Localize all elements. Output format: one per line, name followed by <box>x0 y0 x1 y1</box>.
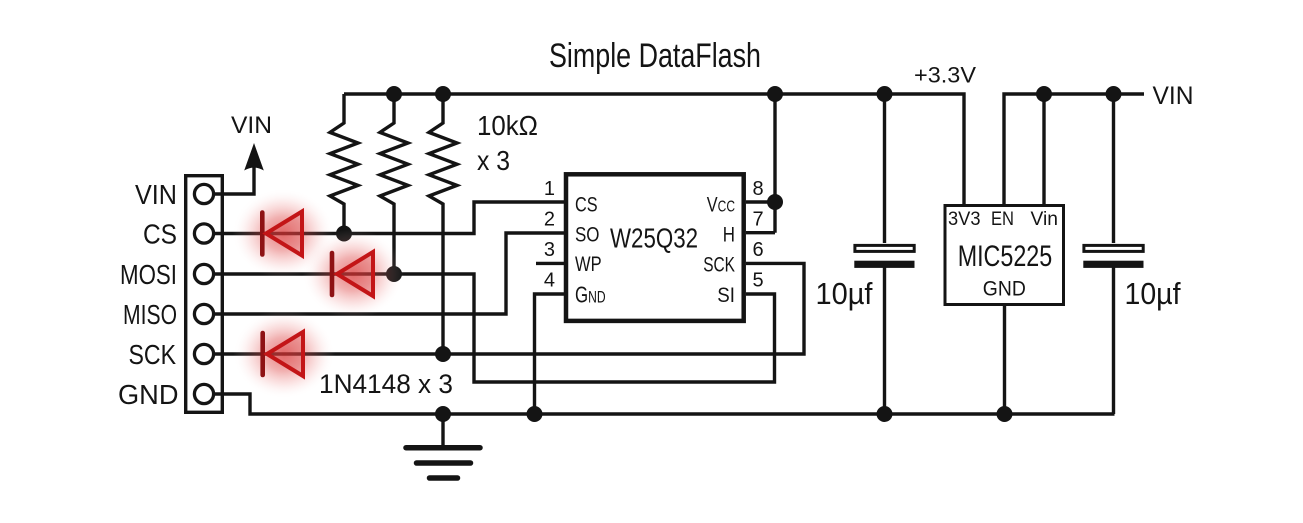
wire GND pin J1 to bottom rail <box>213 394 1115 414</box>
svg-text:3V3: 3V3 <box>948 209 981 230</box>
svg-text:x 3: x 3 <box>477 145 510 176</box>
junction dot C1 rail <box>877 86 893 102</box>
svg-text:VIN: VIN <box>231 112 272 139</box>
pin circle SCK <box>194 344 213 363</box>
wire U1 pin8 Vcc stub <box>746 200 775 203</box>
IC U1 W25Q32 body <box>566 174 744 321</box>
junction dot C1 bottom rail <box>877 406 893 422</box>
svg-text:3: 3 <box>544 239 555 261</box>
wire capacitor C2 bottom lead <box>1112 266 1115 414</box>
svg-text:Simple DataFlash: Simple DataFlash <box>549 37 761 75</box>
junction dot R2 MOSI line <box>386 266 402 282</box>
wire +3.3V rail <box>344 94 964 204</box>
connector J1 <box>186 176 223 413</box>
resistor R3 <box>429 94 457 354</box>
svg-text:10kΩ: 10kΩ <box>477 110 538 141</box>
junction dot R3 top <box>435 86 451 102</box>
pin circle CS <box>194 224 213 243</box>
svg-text:MISO: MISO <box>123 299 177 330</box>
svg-text:SCK: SCK <box>129 339 177 370</box>
junction dot R3 SCK line <box>435 346 451 362</box>
svg-text:1: 1 <box>544 178 555 200</box>
resistor R1 <box>330 94 358 234</box>
junction dot C2 rail <box>1106 86 1122 102</box>
ground <box>406 448 480 478</box>
junction dot ground <box>435 406 451 422</box>
pin circle VIN <box>194 184 213 203</box>
wire VIN pin J1 to arrow <box>213 166 254 194</box>
wire MISO net: J1 MISO to U1 pin2 SO <box>213 233 564 314</box>
capacitor C2 <box>1083 245 1143 268</box>
svg-text:10µf: 10µf <box>1125 276 1181 311</box>
wire Vin pin of U2 <box>1042 94 1045 204</box>
diode D2 <box>302 229 404 319</box>
svg-text:VIN: VIN <box>135 179 177 210</box>
wire capacitor C1 bottom lead <box>883 266 886 414</box>
svg-text:Vin: Vin <box>1031 209 1059 230</box>
svg-text:GND: GND <box>983 277 1026 300</box>
svg-text:+3.3V: +3.3V <box>914 63 976 88</box>
junction dot U2 GND bottom rail <box>997 406 1013 422</box>
svg-text:SO: SO <box>575 223 600 246</box>
capacitor C1 <box>854 245 914 268</box>
resistor R2 <box>380 94 408 274</box>
junction dot U1 GND bottom rail <box>527 406 543 422</box>
svg-text:H: H <box>723 223 735 246</box>
svg-text:10µf: 10µf <box>816 276 873 311</box>
svg-text:MIC5225: MIC5225 <box>958 240 1052 273</box>
wire capacitor C2 top lead <box>1112 94 1115 243</box>
svg-text:8: 8 <box>753 178 764 200</box>
diode D1 <box>232 189 334 279</box>
svg-text:CS: CS <box>575 193 598 216</box>
wire SCK net: J1 SCK to U1 pin6 <box>213 263 804 354</box>
wire Vcc vertical to +3.3V rail <box>773 94 776 233</box>
svg-text:W25Q32: W25Q32 <box>610 222 698 253</box>
diode D3 <box>233 309 335 399</box>
wire CS net: J1 CS to U1 pin1 <box>213 202 564 234</box>
wire U1 pin3 WP stub <box>536 262 564 265</box>
svg-text:2: 2 <box>544 208 555 230</box>
svg-text:5: 5 <box>753 270 764 292</box>
svg-text:4: 4 <box>544 270 555 292</box>
svg-text:VIN: VIN <box>1153 82 1194 110</box>
junction dot Vin rail <box>1036 86 1052 102</box>
wire capacitor C1 top lead <box>883 94 886 243</box>
svg-text:WP: WP <box>575 253 602 276</box>
junction dot Vcc rail <box>767 86 783 102</box>
wire U1 pin4 GND to bottom rail <box>535 294 565 414</box>
wire VIN rail <box>1004 94 1144 204</box>
svg-text:MOSI: MOSI <box>120 259 177 290</box>
svg-text:EN: EN <box>991 209 1014 230</box>
pin circle MOSI <box>194 264 213 283</box>
svg-text:SCK: SCK <box>703 253 735 276</box>
svg-text:1N4148 x 3: 1N4148 x 3 <box>319 369 453 399</box>
wire MOSI net: J1 MOSI to U1 pin5 SI <box>213 274 775 382</box>
wire U2 GND pin to bottom rail <box>1003 306 1006 414</box>
svg-text:GND: GND <box>118 379 179 410</box>
junction dot U1 Vcc pin8 <box>767 194 783 210</box>
junction dot R1 CS line <box>336 226 352 242</box>
pin circle MISO <box>194 304 213 323</box>
pin circle GND <box>194 384 213 403</box>
wire U1 pin7 H stub <box>746 231 775 234</box>
VIN arrowhead <box>244 143 264 171</box>
IC U2 MIC5225 body <box>945 206 1064 305</box>
junction dot R2 top <box>386 86 402 102</box>
svg-text:6: 6 <box>753 239 764 261</box>
svg-text:CS: CS <box>143 219 177 250</box>
svg-text:SI: SI <box>717 284 735 307</box>
ground stem <box>441 414 444 445</box>
svg-text:7: 7 <box>753 208 764 230</box>
